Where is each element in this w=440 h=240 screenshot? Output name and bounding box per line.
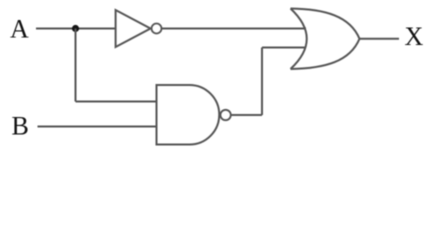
wire NAND output horizontal [231,114,262,116]
wire OR output to X [360,38,400,40]
svg-text:A: A [10,15,29,44]
svg-text:X: X [405,22,424,51]
NAND gate U2 body [157,85,220,145]
wire branch horizontal to NAND input 1 [76,101,157,103]
wire horizontal to OR input 2 [262,47,306,49]
inverter U1 triangle [116,10,151,47]
wire riser up to OR input 2 [261,48,263,116]
wire from A to inverter input [36,28,116,30]
OR gate U3 bottom arc [291,39,360,69]
wire from B to NAND input 2 [38,126,157,128]
wire inverter output to OR input 1 [162,28,306,30]
OR gate U3 top arc [291,9,360,39]
node junction on A wire [72,25,79,32]
wire branch vertical from junction [75,29,77,102]
svg-text:B: B [12,112,29,141]
inverter U1 bubble [152,24,162,34]
NAND gate U2 bubble [220,110,230,120]
OR gate U3 back concave arc [291,9,307,70]
